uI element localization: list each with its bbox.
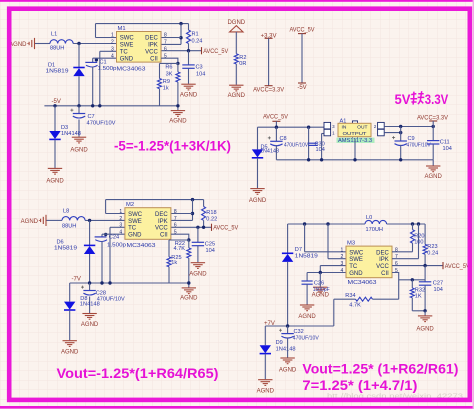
- diode D3 body: [49, 131, 60, 139]
- svg-text:3: 3: [119, 223, 122, 229]
- power port AVCC_5V bar: [211, 224, 213, 231]
- svg-text:6: 6: [164, 47, 167, 53]
- wire top left: [288, 223, 365, 225]
- wire VCC row: [161, 50, 202, 52]
- svg-text:L1: L1: [51, 32, 57, 38]
- capacitor C8 470UF/10V: [268, 127, 308, 160]
- resistor R20 body: [411, 230, 415, 244]
- wire to C27: [424, 266, 426, 282]
- svg-text:MC34063: MC34063: [127, 243, 156, 249]
- wire to R22: [188, 240, 190, 248]
- svg-text:Vout=-1.25*(1+R64/R65): Vout=-1.25*(1+R64/R65): [57, 365, 219, 381]
- wire OUT2: [384, 132, 401, 134]
- svg-text:R23: R23: [427, 244, 437, 250]
- svg-text:5V: 5V: [395, 92, 411, 107]
- wire ground bus: [276, 159, 433, 161]
- junction C30: [307, 126, 310, 129]
- resistor R25 body: [167, 257, 171, 267]
- svg-text:104: 104: [206, 248, 215, 254]
- svg-text:TC: TC: [120, 50, 129, 56]
- junction top wire: [179, 22, 182, 25]
- wire rail to D9: [264, 326, 266, 345]
- capacitor C32 plates: [279, 329, 294, 338]
- svg-text:470UF/10V: 470UF/10V: [87, 120, 116, 126]
- svg-text:0R: 0R: [239, 61, 246, 67]
- svg-text:470UF/10V: 470UF/10V: [284, 143, 308, 149]
- op-amp / converter IC M2 MC34063: [119, 208, 176, 240]
- junction VCC/R18: [202, 226, 205, 229]
- svg-text:AGND: AGND: [21, 219, 39, 225]
- power port: [265, 37, 273, 39]
- svg-text:VCC: VCC: [155, 226, 168, 232]
- diode D6 1N5819: [54, 220, 95, 283]
- svg-text:C27: C27: [433, 280, 443, 286]
- wire AGND to L8: [46, 219, 62, 221]
- junction C24: [104, 233, 107, 236]
- svg-text:SWE: SWE: [120, 43, 134, 49]
- wire VCC to C25: [197, 227, 199, 242]
- wire rail to D3: [54, 106, 56, 131]
- wire to D1: [78, 44, 80, 68]
- net AVCC_5V stub: [290, 27, 315, 33]
- svg-text:R32: R32: [415, 288, 425, 294]
- svg-text:CII: CII: [381, 271, 389, 277]
- junction AVCC33: [432, 125, 435, 128]
- capacitor C24 1500p: [95, 233, 126, 283]
- wire +7V rail: [265, 325, 334, 327]
- wire to D6: [89, 220, 91, 245]
- svg-text:AVCC_5V: AVCC_5V: [213, 226, 238, 232]
- ground AGND under D8: [63, 341, 77, 347]
- junction C1: [95, 58, 98, 61]
- wire pin1 riser: [95, 24, 97, 38]
- capacitor C30 104: [308, 127, 325, 160]
- svg-text:A1: A1: [340, 118, 347, 124]
- wire pin7 riser: [418, 224, 420, 259]
- ground AGND under D3: [48, 168, 62, 174]
- voltage regulator A1 AMS1117-3.3: [324, 118, 384, 144]
- wire CII to R25: [169, 239, 189, 241]
- outer crop lines: [0, 0, 474, 2]
- wire L8 to pin2: [85, 219, 125, 221]
- junction D1/C7: [77, 104, 80, 107]
- wire to ground: [424, 311, 426, 316]
- ground AGND under C28: [82, 314, 96, 320]
- wire R25 down: [168, 267, 170, 283]
- wire C8 to bus: [275, 145, 277, 160]
- wire D8 to ground: [69, 310, 71, 340]
- power port: [298, 82, 306, 84]
- inductor L1 coils: [50, 40, 73, 44]
- wire -5V rail: [44, 105, 159, 107]
- resistor R2 0R: [234, 54, 246, 67]
- wire C30 column: [308, 127, 310, 160]
- svg-text:AVCC_5V: AVCC_5V: [290, 27, 315, 33]
- wire port stub: [275, 121, 277, 127]
- svg-text:AGND: AGND: [298, 314, 316, 320]
- svg-text:R6: R6: [165, 65, 172, 71]
- resistor R18 body: [202, 207, 206, 221]
- svg-text:1N4148: 1N4148: [80, 301, 100, 307]
- junction C24 rail: [100, 281, 103, 284]
- wire L1 to pin2 SWE: [73, 43, 116, 45]
- svg-text:C9: C9: [408, 136, 415, 142]
- wire A1 pin1: [322, 133, 324, 135]
- wire rail to D5: [257, 127, 259, 149]
- svg-text:6: 6: [174, 223, 177, 229]
- capacitor C28 470UF/10V: [81, 283, 125, 313]
- svg-text:3: 3: [341, 261, 344, 267]
- inductor L8 coils: [62, 217, 85, 221]
- wire pin1 stub: [96, 37, 117, 39]
- junction VCC/R23/C27: [423, 264, 426, 267]
- svg-text:SWC: SWC: [349, 250, 364, 256]
- wire port to rail: [432, 121, 434, 127]
- junction D7/C32: [286, 324, 289, 327]
- wire D9 to ground: [264, 354, 266, 380]
- junction CII node 2: [187, 238, 190, 241]
- wire C9 to bus: [400, 145, 402, 160]
- diode D8 1N4148: [64, 283, 100, 340]
- svg-text:470UF/10V: 470UF/10V: [293, 335, 319, 341]
- svg-text:R20: R20: [414, 233, 424, 239]
- junction OUT2: [399, 131, 402, 134]
- wire R32 down: [411, 298, 413, 311]
- wire pins 8-7 riser: [180, 24, 182, 45]
- svg-text:D9: D9: [276, 340, 283, 346]
- ground AGND under C32: [280, 358, 294, 364]
- capacitor C11 plates: [427, 141, 439, 144]
- svg-text:AGND: AGND: [9, 42, 27, 48]
- diode D8 body: [64, 302, 75, 310]
- wire VCC to C3: [188, 51, 190, 65]
- svg-text:3K: 3K: [166, 71, 173, 77]
- wire rail to C32: [287, 326, 289, 333]
- ground AGND under C7: [72, 137, 86, 143]
- wire pin8 stub: [171, 213, 193, 215]
- svg-text:L8: L8: [63, 209, 69, 215]
- wire pin3 down: [319, 266, 321, 273]
- capacitor C32 470UF/10V: [279, 326, 319, 358]
- svg-text:1K: 1K: [415, 294, 422, 300]
- svg-text:M2: M2: [126, 202, 134, 208]
- wire VCC row: [171, 226, 212, 228]
- wire C11 to bus: [432, 144, 434, 160]
- wire to C9: [400, 127, 402, 141]
- ground AGND under D5: [250, 189, 264, 195]
- wire to C11: [432, 127, 434, 141]
- capacitor C26 1500pF: [302, 273, 331, 305]
- svg-text:1: 1: [111, 33, 114, 39]
- svg-text:AGND: AGND: [189, 272, 207, 278]
- svg-text:C7: C7: [88, 114, 95, 120]
- svg-text:R18: R18: [206, 210, 216, 216]
- svg-text:GND: GND: [120, 56, 134, 62]
- wire VCC row: [392, 265, 443, 267]
- wire pin3 stub: [110, 226, 125, 228]
- wire to R18: [203, 200, 205, 207]
- svg-text:IPK: IPK: [379, 257, 389, 263]
- junction node SW: [77, 42, 80, 45]
- svg-text:2: 2: [341, 254, 344, 260]
- wire top DRC: [96, 23, 189, 25]
- wire R18 to VCC row: [203, 220, 205, 227]
- svg-text:1: 1: [341, 247, 344, 253]
- wire pin4 GND row: [307, 272, 346, 274]
- node: M3 boost block: [257, 215, 470, 395]
- svg-text:8: 8: [164, 33, 167, 39]
- svg-text:-5V: -5V: [297, 85, 306, 91]
- svg-text:CII: CII: [150, 56, 158, 62]
- wire rail to ground stem: [160, 105, 178, 107]
- wire pin4 stub: [102, 233, 125, 235]
- resistor R22 body: [187, 248, 191, 258]
- svg-text:C28: C28: [96, 290, 106, 296]
- svg-text:SWE: SWE: [349, 257, 363, 263]
- wire to mid ground: [319, 273, 321, 287]
- svg-text:C32: C32: [294, 329, 304, 335]
- svg-text:1N4148: 1N4148: [276, 346, 296, 352]
- wire rail to C7: [78, 106, 80, 114]
- svg-text:DEC: DEC: [376, 250, 389, 256]
- svg-text:1: 1: [119, 209, 122, 215]
- svg-text:R9: R9: [163, 79, 170, 85]
- wire pin8 stub: [392, 251, 413, 253]
- resistor R1 body: [187, 30, 191, 44]
- svg-text:AGND: AGND: [46, 179, 64, 185]
- svg-text:0.24: 0.24: [192, 38, 203, 44]
- wire rail to ground stem: [169, 282, 189, 284]
- wire C32 to ground: [287, 337, 289, 357]
- svg-text:SWC: SWC: [120, 36, 135, 42]
- svg-text:4: 4: [119, 230, 122, 236]
- svg-text:1N4148: 1N4148: [61, 131, 81, 137]
- wire to C26: [306, 273, 308, 281]
- svg-text:1N5819: 1N5819: [46, 69, 69, 75]
- svg-text:-5V: -5V: [52, 99, 61, 105]
- svg-text:C3: C3: [196, 65, 203, 71]
- svg-text:4.7K: 4.7K: [173, 246, 185, 252]
- wire R34 to rail: [333, 299, 335, 326]
- svg-text:7: 7: [174, 216, 177, 222]
- wire pin8 stub: [161, 37, 181, 39]
- svg-text:IPK: IPK: [158, 219, 168, 225]
- svg-text:7=1.25* (1+4.7/1): 7=1.25* (1+4.7/1): [302, 377, 417, 393]
- wire DGND to R2: [235, 32, 237, 54]
- svg-text:8: 8: [174, 209, 177, 215]
- wire pin1 riser: [304, 224, 306, 252]
- wire AVCC_5V stub: [301, 34, 303, 83]
- svg-text:0.22: 0.22: [206, 216, 217, 222]
- resistor R9 1k: [158, 63, 170, 105]
- junction R20 top: [411, 222, 414, 225]
- svg-text:AGND: AGND: [169, 118, 187, 124]
- wire D3 to ground: [54, 140, 56, 168]
- wire pin2 stub: [328, 258, 346, 260]
- resistor R32 body: [410, 288, 414, 298]
- capacitor C7 470UF/10V: [70, 106, 115, 137]
- power port: [265, 85, 273, 87]
- svg-text:-5=-1.25*(1+3K/1K): -5=-1.25*(1+3K/1K): [114, 138, 231, 153]
- svg-text:2: 2: [119, 216, 122, 222]
- resistor R6 3K: [165, 63, 180, 110]
- junction pin8: [179, 36, 182, 39]
- wire pin5 down: [392, 273, 399, 300]
- junction VCC/R1/C3: [187, 49, 190, 52]
- svg-text:1N5819: 1N5819: [54, 245, 77, 251]
- wire pin3 TC down: [99, 51, 101, 106]
- wire pin5 CII: [161, 58, 178, 63]
- svg-text:GND: GND: [128, 233, 142, 239]
- capacitor C28 plates: [81, 286, 96, 295]
- power port: [298, 33, 306, 35]
- capacitor C25 plates: [192, 242, 204, 245]
- svg-text:AGND: AGND: [249, 198, 267, 204]
- svg-text:IN: IN: [342, 125, 347, 131]
- wire R20 to pin8: [412, 243, 414, 252]
- svg-text:AVCC_5V: AVCC_5V: [263, 114, 288, 120]
- junction rail/ground 2: [187, 281, 190, 284]
- wire pin3 stub: [320, 265, 346, 267]
- svg-text:3: 3: [111, 47, 114, 53]
- svg-text:4: 4: [111, 53, 114, 59]
- capacitor C27 plates: [419, 282, 431, 285]
- svg-text:IPK: IPK: [148, 43, 158, 49]
- wire D5 to ground: [257, 158, 259, 188]
- svg-text:AGND: AGND: [416, 327, 434, 333]
- wire rail to D8: [69, 283, 71, 302]
- diode D7 body: [282, 253, 293, 262]
- svg-text:1k: 1k: [163, 86, 169, 92]
- svg-text:M3: M3: [347, 241, 355, 247]
- wire R34 left: [334, 298, 356, 300]
- junction TC rail: [108, 281, 111, 284]
- junction CII node: [176, 62, 179, 65]
- svg-text:C25: C25: [205, 242, 215, 248]
- svg-text:AVCC_5V: AVCC_5V: [445, 264, 470, 270]
- svg-text:AGND: AGND: [228, 93, 246, 99]
- svg-text:AGND: AGND: [425, 174, 443, 180]
- power port AGND (left): [39, 215, 46, 226]
- junction D6/C28: [88, 281, 91, 284]
- resistor R34 4.7K: [334, 293, 399, 309]
- wire C3 to ground: [188, 69, 190, 84]
- node: M2 inverter block: [21, 198, 239, 355]
- svg-text:8: 8: [395, 247, 398, 253]
- op-amp / converter IC M1 MC34063: [111, 32, 167, 63]
- svg-text:MC34063: MC34063: [117, 66, 146, 72]
- svg-text:104: 104: [434, 287, 443, 293]
- diode D1 body: [73, 68, 84, 77]
- svg-text:100: 100: [414, 240, 423, 246]
- wire C1 to -5V rail: [92, 67, 94, 106]
- wire to R23: [424, 224, 426, 244]
- ground AGND under C26: [300, 305, 314, 311]
- wire C7 to ground: [78, 120, 80, 137]
- wire pin7 stub: [171, 219, 193, 221]
- wire -7V rail: [70, 282, 169, 284]
- svg-text:3.3V: 3.3V: [425, 92, 449, 107]
- svg-text:5: 5: [395, 268, 398, 274]
- diode D9 body: [260, 345, 271, 353]
- capacitor C7 plates: [70, 109, 85, 118]
- svg-text:470UF/10V: 470UF/10V: [97, 297, 125, 303]
- svg-text:R2: R2: [239, 55, 246, 61]
- svg-text:R1: R1: [192, 31, 199, 37]
- wire C24 to rail: [101, 241, 103, 283]
- resistor R25 1k: [167, 240, 182, 283]
- svg-text:170UH: 170UH: [366, 227, 383, 233]
- svg-text:C26: C26: [314, 281, 324, 287]
- svg-text:AGND: AGND: [180, 296, 198, 302]
- svg-text:Vout=1.25* (1+R62/R61): Vout=1.25* (1+R62/R61): [302, 361, 458, 377]
- wire C28 to ground: [89, 297, 91, 314]
- svg-text:AGND: AGND: [81, 322, 99, 328]
- svg-text:DEC: DEC: [145, 36, 158, 42]
- resistor R20 100: [411, 224, 425, 252]
- wire R2 to ground: [235, 64, 237, 85]
- wire C25 to ground: [197, 246, 199, 262]
- svg-text:4.7K: 4.7K: [349, 303, 361, 309]
- svg-text:AGND: AGND: [70, 148, 88, 154]
- wire 3.3V rail right: [384, 126, 433, 128]
- junction TC: [98, 104, 101, 107]
- power port AVCC=3.3V (bottom): [253, 86, 284, 94]
- wire CII row: [399, 279, 425, 281]
- wire pin3 stub: [100, 50, 117, 52]
- svg-text:470UF/10V: 470UF/10V: [407, 142, 431, 148]
- wire to R20: [412, 224, 414, 230]
- resistor R23 body: [423, 244, 427, 254]
- wire R32 to C27 foot: [412, 310, 425, 312]
- svg-text:104: 104: [316, 147, 325, 153]
- ground AGND under R22: [182, 288, 196, 294]
- resistor R32 1K: [410, 280, 425, 311]
- junction pin2 top: [326, 222, 329, 225]
- wire to D7: [287, 224, 289, 253]
- diode D1 1N5819: [46, 44, 85, 106]
- capacitor C9 470UF/10V: [392, 127, 431, 160]
- power port DGND: [227, 20, 245, 32]
- capacitor C30 plates: [308, 143, 318, 145]
- svg-text:AGND: AGND: [180, 92, 198, 98]
- wire to R32: [411, 280, 413, 288]
- svg-text:VCC: VCC: [145, 50, 158, 56]
- wire pin5 CII: [171, 234, 189, 240]
- wire AGND to L1: [35, 43, 51, 45]
- wire R23 to VCC row: [424, 254, 426, 265]
- svg-text:SWE: SWE: [128, 219, 142, 225]
- wire D6 to -7V rail: [89, 254, 91, 283]
- capacitor C27 104: [419, 266, 443, 311]
- capacitor C1 1500p: [85, 58, 116, 106]
- svg-text:R34: R34: [345, 293, 355, 299]
- svg-text:AVCC_5V: AVCC_5V: [203, 49, 228, 55]
- wire rail to C8: [275, 127, 277, 141]
- power port AVCC=3.3V (top right): [417, 116, 448, 122]
- wire top DRC: [106, 199, 204, 201]
- svg-text:88UH: 88UH: [62, 224, 76, 230]
- svg-text:TC: TC: [128, 226, 137, 232]
- wire CII to R9: [160, 62, 178, 64]
- wire R1 to VCC row: [188, 44, 190, 51]
- svg-text:1500pF: 1500pF: [313, 287, 331, 293]
- svg-text:GND: GND: [349, 271, 363, 277]
- junction rail/ground: [176, 104, 179, 107]
- capacitor C25 104: [192, 227, 215, 262]
- node: AMS1117 5V to 3.3V block: [249, 91, 452, 204]
- inductor L0 coils: [365, 220, 387, 224]
